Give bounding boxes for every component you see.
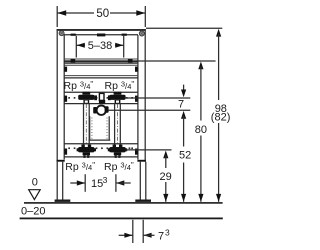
svg-text:7: 7: [178, 99, 184, 111]
upper perforated rail: [64, 92, 138, 103]
bottom reference line: [20, 218, 223, 220]
dimension 50 (overall width): [57, 6, 145, 27]
svg-text:0–20: 0–20: [21, 205, 45, 217]
water fitting lower right: [108, 145, 127, 158]
channel end cap left: [57, 160, 65, 162]
rail slider bracket left: [71, 34, 76, 36]
leg left: [57, 162, 63, 200]
rail slider bracket right: [122, 34, 127, 36]
dimension 98 (82) line: [211, 29, 231, 202]
svg-text:3: 3: [165, 227, 170, 237]
wall anchor bracket center: [97, 34, 105, 37]
svg-text:29: 29: [160, 171, 172, 183]
lower perforated rail: [64, 144, 138, 157]
extension line top right (98 level): [146, 27, 222, 29]
foot plate left: [55, 200, 71, 202]
leg right: [140, 162, 146, 200]
svg-text:52: 52: [179, 150, 191, 162]
frame top rail: [57, 29, 146, 35]
water fitting lower left: [77, 145, 96, 158]
rail bolt left on upper rail: [64, 96, 67, 102]
svg-text:80: 80: [195, 124, 207, 136]
rail fixing bolt right: [135, 67, 138, 72]
svg-text:7: 7: [158, 230, 164, 242]
svg-text:15: 15: [91, 178, 103, 190]
extension line rail (80 level): [138, 60, 216, 62]
dimension 7 arrows: [178, 85, 186, 111]
rail bolt right on lower rail: [135, 149, 138, 155]
frame inner uprights: [64, 35, 138, 160]
svg-text:50: 50: [96, 8, 109, 20]
dimension 7-3 (bottom): [119, 220, 170, 243]
mounting rail (traverse): [64, 59, 138, 78]
dimension 15-3 (pipe spacing): [70, 174, 130, 192]
dimension 5-38 (adjustable): [76, 36, 123, 58]
water fitting upper right: [109, 92, 125, 104]
svg-text:0: 0: [32, 176, 38, 188]
svg-text:5–38: 5–38: [88, 40, 112, 52]
level mark 0: [29, 176, 41, 199]
svg-text:3: 3: [103, 175, 108, 185]
frame outer uprights: [57, 29, 145, 162]
dimension 52 line: [179, 111, 191, 202]
floor line (0 level): [24, 202, 223, 204]
screw top-right: [139, 31, 144, 36]
extension line lower fitting (29 level): [126, 149, 172, 151]
svg-text:Rp 3/4": Rp 3/4": [64, 79, 94, 92]
svg-text:Rp 3/4": Rp 3/4": [105, 79, 135, 92]
dimension 80 line: [195, 62, 207, 202]
dimension 29 line: [160, 151, 172, 202]
rail fixing bolt left: [64, 67, 67, 72]
svg-text:(82): (82): [211, 112, 231, 124]
supply pipe left: [84, 103, 90, 154]
extension line trap (7 lower / 52 level): [109, 109, 191, 111]
svg-text:Rp 3/4": Rp 3/4": [65, 160, 95, 173]
water fitting upper left: [78, 92, 94, 104]
screw top-left: [59, 31, 64, 36]
rail bolt left on lower rail: [64, 149, 67, 155]
drain sleeve: [89, 116, 111, 140]
channel end cap right: [137, 160, 146, 162]
trap circle: [93, 106, 108, 115]
center drain bracket: [99, 93, 105, 103]
svg-text:Rp 3/4": Rp 3/4": [104, 160, 134, 173]
rail bolt right on upper rail: [135, 96, 138, 102]
foot plate right: [135, 200, 151, 202]
extension line supply (7 upper): [125, 97, 190, 99]
supply pipe right: [115, 103, 121, 154]
